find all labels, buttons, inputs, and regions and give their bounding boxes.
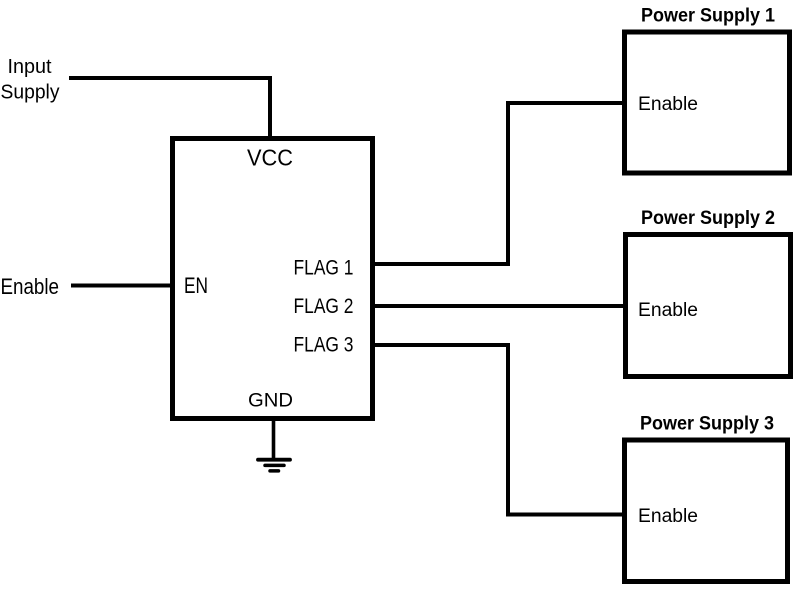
svg-text:FLAG 3: FLAG 3 (294, 334, 354, 357)
svg-text:Enable: Enable (638, 506, 698, 527)
svg-text:VCC: VCC (247, 145, 293, 171)
svg-text:Power Supply 1: Power Supply 1 (641, 6, 775, 27)
svg-text:Input: Input (8, 56, 52, 78)
wire Enable to EN pin (71, 284, 172, 288)
svg-text:EN: EN (184, 273, 208, 298)
block Power Supply 2 (626, 208, 791, 377)
svg-text:Power Supply 2: Power Supply 2 (641, 208, 775, 229)
wire GND pin to ground (272, 419, 276, 459)
svg-text:GND: GND (248, 390, 293, 412)
svg-text:Enable: Enable (1, 274, 60, 299)
wire Input Supply to VCC pin (69, 78, 270, 140)
block Power Supply 3 (625, 414, 788, 582)
block Power Supply 1 (625, 6, 790, 174)
wire FLAG 3 to Power Supply 3 Enable (375, 345, 623, 515)
wire FLAG 1 to Power Supply 1 Enable (375, 103, 623, 264)
svg-text:FLAG 1: FLAG 1 (294, 257, 354, 280)
svg-text:Enable: Enable (638, 300, 698, 321)
svg-text:Power Supply 3: Power Supply 3 (640, 414, 774, 435)
svg-text:Supply: Supply (1, 82, 60, 104)
wire FLAG 2 to Power Supply 2 Enable (375, 304, 624, 308)
svg-text:Enable: Enable (638, 94, 698, 115)
IC U1 body (173, 139, 373, 419)
node Input Supply label (1, 56, 60, 104)
svg-text:FLAG 2: FLAG 2 (294, 295, 354, 318)
ground symbol (258, 460, 290, 471)
